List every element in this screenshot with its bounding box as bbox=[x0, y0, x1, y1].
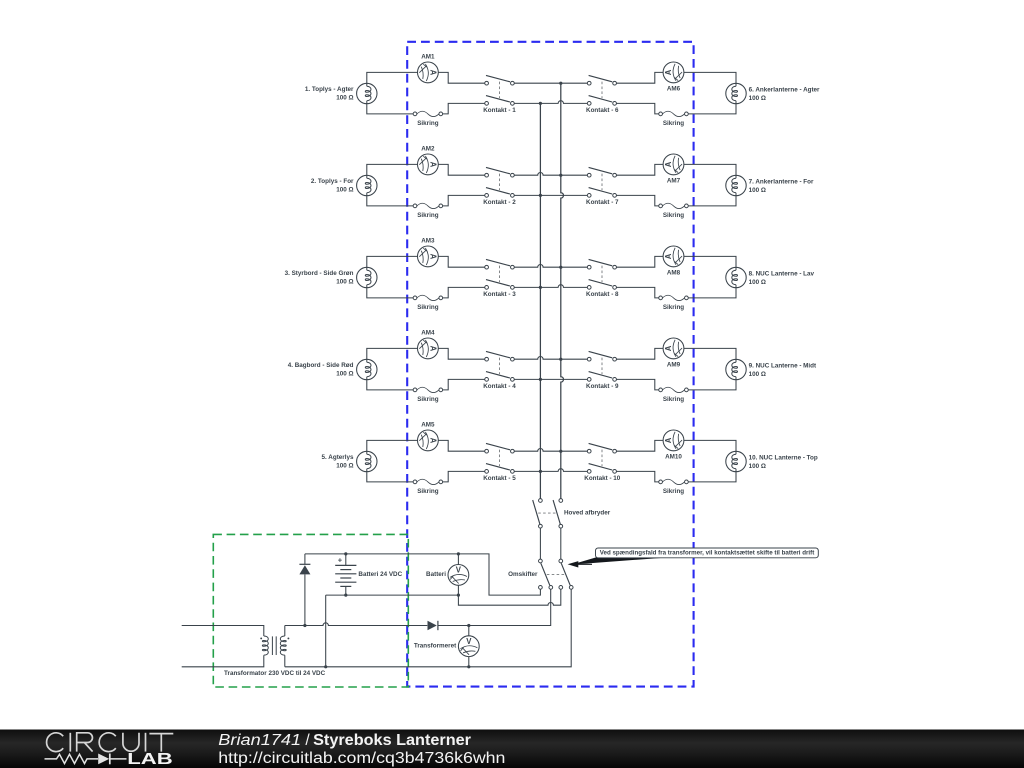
lamp L4 (4. Bagbord - Side Rød) bbox=[357, 359, 377, 379]
wire row3: Kontakt-8 to AM8 bbox=[617, 256, 664, 267]
wire row2: Kontakt-7 to AM7 bbox=[617, 164, 664, 175]
svg-text:Sikring: Sikring bbox=[417, 304, 438, 311]
wire row4: bottom between switches bbox=[514, 378, 587, 380]
svg-text:Sikring: Sikring bbox=[417, 212, 438, 219]
wire row2: fuse to lamp L7 bbox=[688, 196, 736, 206]
svg-text:AM8: AM8 bbox=[667, 270, 681, 277]
wire: Batteri voltmeter top lead bbox=[457, 554, 459, 565]
wire row3: bottom between switches with hop over right bus bbox=[514, 285, 587, 288]
svg-text:V: V bbox=[466, 637, 472, 646]
svg-text:100 Ω: 100 Ω bbox=[749, 279, 766, 286]
gang link Kontakt - 3 bbox=[499, 266, 501, 283]
switch Kontakt - 4 (top pole) bbox=[485, 351, 515, 361]
switch Kontakt - 9 (top pole) bbox=[587, 351, 616, 361]
svg-text:Batteri 24 VDC: Batteri 24 VDC bbox=[358, 571, 402, 578]
ammeter AM10 bbox=[663, 430, 684, 451]
switch Kontakt - 5 (top pole) bbox=[485, 443, 515, 453]
svg-text:Kontakt - 4: Kontakt - 4 bbox=[483, 383, 516, 390]
svg-text:+: + bbox=[338, 556, 343, 565]
wire row5: AM10 to lamp L10 bbox=[684, 440, 736, 451]
svg-text:100 Ω: 100 Ω bbox=[336, 462, 353, 469]
wire row1: Kontakt-1 to Kontakt-6 top (bus junction) bbox=[514, 82, 587, 84]
junction row4 bottom / left bus bbox=[539, 378, 542, 381]
junction row5 bottom / left bus bbox=[539, 470, 542, 473]
voltmeter Transformeret bbox=[458, 636, 479, 657]
junction row5 top / right bus bbox=[559, 450, 562, 453]
lamp L1 (1. Toplys - Agter) bbox=[357, 83, 377, 103]
gang link Kontakt - 9 bbox=[601, 358, 603, 375]
svg-text:A: A bbox=[428, 162, 437, 168]
wire row2: bottom between switches bbox=[514, 194, 587, 196]
junction row2 bottom / left bus bbox=[539, 194, 542, 197]
lamp L10 (10. NUC Lanterne - Top) bbox=[726, 451, 746, 471]
svg-text:100 Ω: 100 Ω bbox=[749, 371, 766, 378]
junction diode D1 anode bbox=[303, 624, 306, 627]
wire row3: AM3 to Kontakt-3 top pole bbox=[438, 256, 484, 267]
wire row3: fuse to lamp L8 bbox=[688, 288, 736, 298]
switch Kontakt - 3 (top pole) bbox=[485, 259, 515, 269]
wire row2: Kontakt-2 to Kontakt-7 top with hop over left bus bbox=[514, 173, 587, 176]
svg-text:100 Ω: 100 Ω bbox=[749, 187, 766, 194]
svg-text:Kontakt - 1: Kontakt - 1 bbox=[483, 107, 516, 114]
junction battery + lead bbox=[344, 552, 347, 555]
svg-text:Kontakt - 5: Kontakt - 5 bbox=[483, 475, 516, 482]
svg-text:A: A bbox=[664, 345, 673, 351]
ammeter AM2 bbox=[418, 154, 439, 175]
lamp L7 (7. Ankerlanterne - For) bbox=[726, 175, 746, 195]
switch Kontakt - 10 (bottom pole) bbox=[587, 464, 616, 474]
wire: diode D1 anode to transformer+ net bbox=[304, 574, 306, 625]
svg-text:Omskifter: Omskifter bbox=[508, 571, 538, 578]
wire row4: AM4 to Kontakt-4 top pole bbox=[438, 348, 484, 359]
diode D2 (transformer rectifier, pointing right) bbox=[428, 621, 438, 630]
svg-text:Kontakt - 3: Kontakt - 3 bbox=[483, 291, 516, 298]
ammeter AM9 bbox=[663, 338, 684, 359]
svg-text:AM4: AM4 bbox=[421, 330, 435, 337]
svg-text:Sikring: Sikring bbox=[663, 396, 684, 403]
svg-text:Hoved afbryder: Hoved afbryder bbox=[564, 510, 611, 517]
svg-text:AM1: AM1 bbox=[421, 54, 435, 61]
svg-text:Kontakt - 8: Kontakt - 8 bbox=[586, 291, 619, 298]
switch Kontakt - 6 (top pole) bbox=[587, 75, 616, 85]
switch Kontakt - 6 (bottom pole) bbox=[587, 96, 616, 106]
svg-text:Brian1741 / Styreboks Lanterne: Brian1741 / Styreboks Lanterner bbox=[218, 732, 471, 749]
svg-text:Sikring: Sikring bbox=[417, 396, 438, 403]
svg-text:8. NUC Lanterne - Lav: 8. NUC Lanterne - Lav bbox=[749, 271, 815, 278]
svg-text:5. Agterlys: 5. Agterlys bbox=[322, 454, 354, 461]
fuse Sikring (row 1 left) bbox=[413, 111, 443, 116]
wire row4: AM9 to lamp L9 bbox=[684, 348, 736, 359]
svg-text:AM9: AM9 bbox=[667, 362, 681, 369]
svg-text:A: A bbox=[664, 437, 673, 443]
wire row4: Kontakt-9 bottom to fuse bbox=[617, 379, 659, 390]
svg-text:100 Ω: 100 Ω bbox=[336, 94, 353, 101]
lamp L3 (3. Styrbord - Side Grøn) bbox=[357, 267, 377, 287]
gang link Omskifter bbox=[547, 573, 565, 575]
svg-text:Kontakt - 6: Kontakt - 6 bbox=[586, 107, 619, 114]
svg-text:AM3: AM3 bbox=[421, 238, 435, 245]
ammeter AM4 bbox=[418, 338, 439, 359]
switch Hoved afbryder pole 1 bbox=[533, 499, 543, 528]
svg-text:100 Ω: 100 Ω bbox=[749, 95, 766, 102]
svg-text:4. Bagbord - Side Rød: 4. Bagbord - Side Rød bbox=[288, 362, 354, 369]
svg-text:Sikring: Sikring bbox=[417, 120, 438, 127]
wire row3: Kontakt-3 to Kontakt-8 top with hop over left bus bbox=[514, 265, 587, 268]
lamp L9 (9. NUC Lanterne - Midt) bbox=[726, 359, 746, 379]
wire row2: AM2 to Kontakt-2 top pole bbox=[438, 164, 484, 175]
wire row3: lamp L3 bottom to fuse bbox=[367, 288, 413, 298]
wire row4: lamp L4 bottom to fuse bbox=[367, 380, 413, 390]
svg-text:Ved spændingsfald fra transfor: Ved spændingsfald fra transformer, vil k… bbox=[600, 550, 815, 557]
wire row1: AM6 to lamp L6 bbox=[684, 72, 736, 83]
junction row1 top / right bus bbox=[559, 82, 562, 85]
lamp L8 (8. NUC Lanterne - Lav) bbox=[726, 267, 746, 287]
wire row4: fuse to Kontakt-4 bottom pole bbox=[443, 379, 485, 390]
switch Omskifter pole 2 bbox=[559, 559, 573, 589]
svg-text:Transformator 230 VDC til 24 V: Transformator 230 VDC til 24 VDC bbox=[224, 670, 326, 677]
wire row2: AM7 to lamp L7 bbox=[684, 164, 736, 175]
fuse Sikring (row 4 right) bbox=[659, 387, 689, 392]
svg-text:100 Ω: 100 Ω bbox=[336, 370, 353, 377]
wire row1: bottom between switches with hop over right bus bbox=[514, 101, 587, 104]
svg-text:Kontakt - 7: Kontakt - 7 bbox=[586, 199, 619, 206]
fuse Sikring (row 4 left) bbox=[413, 387, 443, 392]
svg-text:10. NUC Lanterne - Top: 10. NUC Lanterne - Top bbox=[749, 455, 818, 462]
wire row1: Kontakt-6 to AM6 bbox=[617, 72, 664, 83]
svg-text:2. Toplys - For: 2. Toplys - For bbox=[311, 178, 354, 185]
junction row3 top / right bus bbox=[559, 266, 562, 269]
svg-text:A: A bbox=[428, 70, 437, 76]
svg-text:100 Ω: 100 Ω bbox=[749, 463, 766, 470]
wire: battery positive net to Omskifter terminal 1 bbox=[305, 554, 541, 595]
gang link Kontakt - 2 bbox=[499, 174, 501, 191]
svg-text:A: A bbox=[664, 69, 673, 75]
wire: battery negative down to transformer return net bbox=[325, 595, 327, 667]
junction Batteri voltmeter bottom bbox=[457, 594, 460, 597]
fuse Sikring (row 2 left) bbox=[413, 203, 443, 208]
svg-text:3. Styrbord - Side Grøn: 3. Styrbord - Side Grøn bbox=[285, 270, 354, 277]
callout tail bbox=[572, 557, 672, 564]
transformer T1 (Transformator 230 VDC til 24 VDC) bbox=[182, 626, 290, 667]
logo resistor + diode bbox=[45, 754, 127, 765]
ammeter AM6 bbox=[663, 62, 684, 83]
svg-text:Sikring: Sikring bbox=[663, 212, 684, 219]
wire row2: lamp L2 bottom to fuse bbox=[367, 196, 413, 206]
wire row3: fuse to Kontakt-3 bottom pole bbox=[443, 287, 485, 298]
svg-text:9. NUC Lanterne - Midt: 9. NUC Lanterne - Midt bbox=[749, 363, 817, 370]
wire row5: Kontakt-10 to AM10 bbox=[617, 440, 664, 451]
switch Kontakt - 8 (bottom pole) bbox=[587, 280, 616, 290]
wire: Hoved afbryder pole2 to Omskifter pole2 bbox=[560, 528, 562, 559]
wire row5: Kontakt-10 bottom to fuse bbox=[617, 471, 659, 482]
junction row3 bottom / left bus bbox=[539, 286, 542, 289]
wire row4: lamp L4 top to AM4 bbox=[367, 348, 418, 359]
svg-text:Sikring: Sikring bbox=[663, 120, 684, 127]
junction row2 top / right bus bbox=[559, 174, 562, 177]
wire row2: lamp L2 top to AM2 bbox=[367, 164, 418, 175]
switch Kontakt - 1 (top pole) bbox=[485, 75, 515, 85]
wire: Batteri voltmeter to Omskifter terminal 3 with hop bbox=[458, 585, 560, 605]
svg-text:AM5: AM5 bbox=[421, 422, 435, 429]
wire row5: Kontakt-5 to Kontakt-10 top with hop over left bus bbox=[514, 449, 587, 452]
gang link Kontakt - 4 bbox=[499, 358, 501, 375]
svg-text:AM7: AM7 bbox=[667, 178, 681, 185]
fuse Sikring (row 5 right) bbox=[659, 479, 689, 484]
wire row5: AM5 to Kontakt-5 top pole bbox=[438, 440, 484, 451]
fuse Sikring (row 2 right) bbox=[659, 203, 689, 208]
lamp L2 (2. Toplys - For) bbox=[357, 175, 377, 195]
svg-text:1. Toplys - Agter: 1. Toplys - Agter bbox=[305, 86, 354, 93]
callout arrow bbox=[577, 563, 593, 565]
svg-text:A: A bbox=[428, 438, 437, 444]
switch Kontakt - 4 (bottom pole) bbox=[485, 372, 515, 382]
gang link Kontakt - 7 bbox=[601, 174, 603, 191]
wire row1: AM1 to Kontakt-1 top pole bbox=[438, 72, 484, 83]
ammeter AM7 bbox=[663, 154, 684, 175]
svg-text:Kontakt - 2: Kontakt - 2 bbox=[483, 199, 516, 206]
junction row1 bottom / left bus bbox=[539, 102, 542, 105]
svg-text:A: A bbox=[664, 161, 673, 167]
switch Kontakt - 9 (bottom pole) bbox=[587, 372, 616, 382]
svg-text:100 Ω: 100 Ω bbox=[336, 186, 353, 193]
wire row4: Kontakt-4 to Kontakt-9 top with hop over left bus bbox=[514, 357, 587, 360]
svg-text:AM10: AM10 bbox=[665, 454, 682, 461]
svg-text:Batteri: Batteri bbox=[426, 571, 446, 578]
fuse Sikring (row 3 left) bbox=[413, 295, 443, 300]
wire row1: fuse to lamp L6 bbox=[688, 104, 736, 114]
svg-text:AM6: AM6 bbox=[667, 86, 681, 93]
ammeter AM1 bbox=[418, 62, 439, 83]
wire row5: fuse to Kontakt-5 bottom pole bbox=[443, 471, 485, 482]
svg-text:A: A bbox=[664, 253, 673, 259]
gang link Kontakt - 6 bbox=[601, 82, 603, 99]
wire: Transformeret voltmeter top lead bbox=[468, 626, 470, 636]
wire: Hoved afbryder pole1 to Omskifter pole1 bbox=[539, 528, 541, 559]
gang link Kontakt - 8 bbox=[601, 266, 603, 283]
junction Batteri voltmeter top bbox=[457, 552, 460, 555]
svg-text:7. Ankerlanterne - For: 7. Ankerlanterne - For bbox=[749, 179, 814, 186]
svg-text:Sikring: Sikring bbox=[663, 304, 684, 311]
wire row3: lamp L3 top to AM3 bbox=[367, 256, 418, 267]
fuse Sikring (row 5 left) bbox=[413, 479, 443, 484]
wire row5: lamp L5 top to AM5 bbox=[367, 440, 418, 451]
gang link Kontakt - 10 bbox=[601, 450, 603, 467]
ammeter AM3 bbox=[418, 246, 439, 267]
wire row3: AM8 to lamp L8 bbox=[684, 256, 736, 267]
svg-text:Transformeret: Transformeret bbox=[414, 643, 457, 650]
switch Kontakt - 2 (bottom pole) bbox=[485, 188, 515, 198]
svg-text:A: A bbox=[428, 254, 437, 260]
wire row5: lamp L5 bottom to fuse bbox=[367, 472, 413, 482]
wire row1: fuse to Kontakt-1 bottom pole bbox=[443, 103, 485, 114]
svg-text:6. Ankerlanterne - Agter: 6. Ankerlanterne - Agter bbox=[749, 87, 820, 94]
switch Kontakt - 8 (top pole) bbox=[587, 259, 616, 269]
wire row1: lamp L1 bottom to fuse bbox=[367, 104, 413, 114]
ammeter AM8 bbox=[663, 246, 684, 267]
battery Batteri 24 VDC bbox=[335, 554, 356, 595]
wire row5: bottom between switches with hop over right bus bbox=[514, 469, 587, 472]
gang link Kontakt - 1 bbox=[499, 82, 501, 99]
fuse Sikring (row 3 right) bbox=[659, 295, 689, 300]
voltmeter Batteri bbox=[448, 565, 469, 586]
wire row4: Kontakt-9 to AM9 bbox=[617, 348, 664, 359]
svg-text:V: V bbox=[456, 566, 462, 575]
svg-text:Kontakt - 9: Kontakt - 9 bbox=[586, 383, 619, 390]
svg-text:LAB: LAB bbox=[127, 751, 172, 768]
wire: Transformeret voltmeter bottom lead bbox=[468, 657, 470, 667]
gang link Kontakt - 5 bbox=[499, 450, 501, 467]
wire: diode D2 to Omskifter terminal 2 bbox=[438, 589, 551, 625]
wire: battery negative to Batteri voltmeter bottom bbox=[326, 594, 459, 596]
lamp L6 (6. Ankerlanterne - Agter) bbox=[726, 83, 746, 103]
switch Omskifter pole 1 bbox=[539, 559, 553, 589]
gang link Hoved afbryder bbox=[538, 512, 555, 514]
junction Transformeret voltmeter bottom bbox=[467, 665, 470, 668]
diode D1 (battery charge blocking, pointing up) bbox=[299, 564, 310, 574]
wire: left bus (bottom switch net) down to Hoved afbryder bbox=[539, 103, 541, 498]
svg-text:100 Ω: 100 Ω bbox=[336, 278, 353, 285]
junction battery - lead bbox=[344, 594, 347, 597]
switch Hoved afbryder pole 2 bbox=[553, 499, 563, 528]
wire: diode D1 cathode up bbox=[304, 554, 306, 564]
svg-text:http://circuitlab.com/cq3b4736: http://circuitlab.com/cq3b4736k6whn bbox=[218, 750, 505, 767]
wire: right bus (top switch net) down to Hoved afbryder bbox=[561, 83, 564, 498]
wire row2: Kontakt-7 bottom to fuse bbox=[617, 195, 659, 206]
svg-text:A: A bbox=[428, 346, 437, 352]
wire row5: fuse to lamp L10 bbox=[688, 472, 736, 482]
lamp L5 (5. Agterlys) bbox=[357, 451, 377, 471]
switch Kontakt - 10 (top pole) bbox=[587, 443, 616, 453]
svg-text:Kontakt - 10: Kontakt - 10 bbox=[584, 475, 621, 482]
junction row4 top / right bus bbox=[559, 358, 562, 361]
blue dashed outline box bbox=[407, 42, 693, 687]
switch Kontakt - 5 (bottom pole) bbox=[485, 464, 515, 474]
junction battery negative / net B bbox=[324, 665, 327, 668]
wire row1: Kontakt-6 bottom to fuse bbox=[617, 103, 659, 114]
wire: transformer secondary + to diode D2 (hop over battery negative drop) bbox=[285, 623, 428, 626]
switch Kontakt - 7 (bottom pole) bbox=[587, 188, 616, 198]
switch Kontakt - 1 (bottom pole) bbox=[485, 96, 515, 106]
switch Kontakt - 3 (bottom pole) bbox=[485, 280, 515, 290]
ammeter AM5 bbox=[418, 430, 439, 451]
wire row2: fuse to Kontakt-2 bottom pole bbox=[443, 195, 485, 206]
svg-text:AM2: AM2 bbox=[421, 146, 435, 153]
green dashed outline box (transformer section) bbox=[213, 534, 408, 687]
switch Kontakt - 7 (top pole) bbox=[587, 167, 616, 177]
wire row3: Kontakt-8 bottom to fuse bbox=[617, 287, 659, 298]
junction Transformeret voltmeter top bbox=[467, 624, 470, 627]
logo CIRCUIT bbox=[47, 733, 174, 752]
wire row1: lamp L1 top to AM1 bbox=[367, 72, 418, 83]
switch Kontakt - 2 (top pole) bbox=[485, 167, 515, 177]
svg-text:Sikring: Sikring bbox=[417, 488, 438, 495]
callout box bbox=[596, 548, 819, 558]
svg-text:Sikring: Sikring bbox=[663, 488, 684, 495]
fuse Sikring (row 1 right) bbox=[659, 111, 689, 116]
wire: transformer secondary return to Omskifter terminal 4 bbox=[285, 589, 571, 667]
wire row4: fuse to lamp L9 bbox=[688, 380, 736, 390]
